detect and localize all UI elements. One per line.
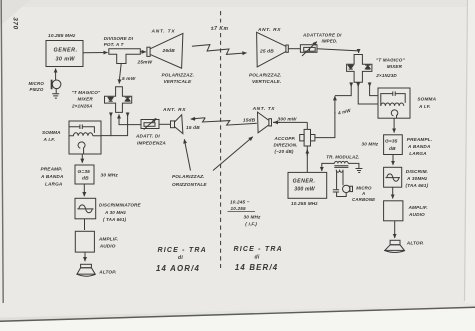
svg-text:MICRO: MICRO [29, 81, 45, 86]
svg-text:GENER.: GENER. [54, 48, 78, 54]
svg-text:15 dB: 15 dB [186, 125, 200, 131]
svg-text:POLARIZZAZ.: POLARIZZAZ. [162, 73, 195, 78]
svg-text:30 MHz: 30 MHz [362, 141, 379, 146]
svg-text:AMPLIF.: AMPLIF. [98, 237, 118, 242]
svg-text:30 MHz: 30 MHz [244, 214, 262, 219]
svg-text:TR. MODULAZ.: TR. MODULAZ. [326, 154, 359, 159]
svg-text:A I.F.: A I.F. [418, 104, 431, 109]
svg-text:LARGA: LARGA [45, 181, 63, 186]
svg-text:PIEZO: PIEZO [30, 87, 44, 92]
svg-text:di: di [255, 255, 260, 261]
svg-text:G=35: G=35 [385, 139, 398, 145]
svg-text:14 BER/4: 14 BER/4 [235, 263, 278, 272]
svg-text:POT. A T: POT. A T [104, 42, 125, 47]
svg-text:AUDIO: AUDIO [408, 212, 425, 217]
svg-text:A: A [361, 191, 365, 196]
svg-text:CARBONE: CARBONE [352, 197, 376, 202]
svg-text:G=35: G=35 [78, 169, 91, 175]
svg-text:PREAMP.: PREAMP. [41, 167, 63, 172]
svg-text:SOMMA: SOMMA [42, 130, 61, 135]
svg-text:10.285 MHz: 10.285 MHz [48, 33, 76, 39]
svg-text:10.255: 10.255 [231, 206, 246, 211]
svg-text:"T MAGICO": "T MAGICO" [376, 58, 405, 63]
svg-text:370: 370 [11, 17, 18, 30]
svg-text:5 mW: 5 mW [122, 76, 136, 82]
svg-text:POLARIZZAZ.: POLARIZZAZ. [249, 73, 282, 78]
svg-text:dB: dB [82, 176, 89, 182]
svg-text:10.245 −: 10.245 − [230, 200, 250, 205]
svg-text:2×1N23D: 2×1N23D [375, 73, 397, 78]
svg-text:VERTICALE.: VERTICALE. [252, 79, 281, 84]
svg-text:( I.F.): ( I.F.) [245, 221, 257, 226]
svg-text:25mW: 25mW [137, 60, 153, 66]
svg-text:30 MHz: 30 MHz [101, 173, 119, 179]
svg-text:ORIZZONTALE: ORIZZONTALE [172, 182, 207, 187]
svg-text:300 mW: 300 mW [278, 116, 297, 122]
svg-text:LARGA: LARGA [409, 151, 427, 156]
svg-text:ANT. RX: ANT. RX [257, 27, 281, 33]
svg-text:±7 Km: ±7 Km [211, 26, 229, 32]
svg-text:( TAA 661): ( TAA 661) [103, 217, 127, 222]
svg-text:A I.F.: A I.F. [43, 137, 56, 142]
svg-text:AUDIO: AUDIO [99, 244, 116, 249]
svg-text:DIREZION.: DIREZION. [274, 142, 298, 147]
svg-text:ANT. TX: ANT. TX [151, 29, 176, 35]
svg-text:SOMMA: SOMMA [417, 97, 436, 102]
svg-text:14 AOR/4: 14 AOR/4 [156, 264, 200, 273]
svg-text:di: di [178, 255, 183, 261]
svg-text:GENER.: GENER. [293, 179, 316, 185]
svg-text:10.255 MHz: 10.255 MHz [291, 201, 318, 206]
svg-text:30 mW: 30 mW [56, 56, 76, 62]
svg-text:"T MAGICO": "T MAGICO" [72, 90, 101, 95]
svg-text:MIXER: MIXER [387, 64, 403, 69]
svg-text:2×1N26A: 2×1N26A [71, 104, 93, 109]
svg-text:MIXER: MIXER [78, 97, 94, 102]
svg-text:AMPLIF.: AMPLIF. [408, 205, 428, 210]
svg-text:ACCOPP.: ACCOPP. [274, 136, 296, 141]
svg-text:ADATT. DI: ADATT. DI [135, 134, 160, 139]
svg-text:A BANDA: A BANDA [40, 174, 64, 179]
svg-text:300 mW: 300 mW [294, 187, 315, 193]
svg-text:dB: dB [389, 146, 396, 152]
svg-text:VERTICALE: VERTICALE [164, 79, 193, 84]
svg-text:(TAA 661): (TAA 661) [406, 183, 429, 188]
svg-text:(−20 dB): (−20 dB) [275, 149, 294, 154]
svg-text:MICRO: MICRO [356, 186, 372, 191]
svg-text:ALTOP.: ALTOP. [98, 270, 116, 275]
svg-text:ANT. TX: ANT. TX [252, 106, 276, 112]
svg-text:DIVISORE DI: DIVISORE DI [104, 36, 134, 41]
svg-text:RICE - TRA: RICE - TRA [234, 246, 283, 253]
svg-text:ALTOP.: ALTOP. [406, 241, 424, 246]
svg-text:26dB: 26dB [162, 48, 176, 54]
svg-text:RICE - TRA: RICE - TRA [158, 247, 207, 254]
svg-text:A BANDA: A BANDA [407, 144, 431, 149]
svg-text:PREAMPL.: PREAMPL. [407, 137, 432, 142]
svg-text:A 30MHz: A 30MHz [406, 176, 428, 181]
svg-text:IMPEDENZA: IMPEDENZA [137, 141, 166, 146]
svg-text:15dB: 15dB [243, 117, 256, 123]
svg-text:DISCRIM.: DISCRIM. [406, 169, 428, 174]
svg-text:POLARIZZAZ.: POLARIZZAZ. [172, 174, 205, 179]
svg-text:25 dB: 25 dB [259, 49, 274, 55]
svg-text:ADATTATORE DI: ADATTATORE DI [302, 32, 342, 37]
svg-text:ANT. RX: ANT. RX [162, 107, 186, 113]
svg-text:IMPED.: IMPED. [322, 39, 338, 44]
svg-text:A 30 MHz: A 30 MHz [104, 210, 127, 215]
svg-text:DISCRIMINATORE: DISCRIMINATORE [99, 203, 142, 208]
